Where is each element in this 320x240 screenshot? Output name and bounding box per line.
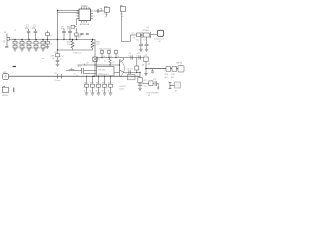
svg-text:an: an [104,17,106,19]
svg-text:an: an [121,16,123,18]
svg-text:R3: R3 [31,43,33,45]
svg-text:4*MHz: 4*MHz [143,30,150,32]
svg-text:R21: R21 [143,80,146,82]
svg-text:R5: R5 [45,43,47,45]
svg-text:18: 18 [149,37,151,39]
svg-text:un: un [42,58,44,60]
svg-text:1k: 1k [45,47,47,49]
svg-text:C8: C8 [127,69,129,71]
svg-text:R18: R18 [96,83,99,85]
svg-text:R19: R19 [102,83,105,85]
svg-text:J4: J4 [4,32,7,34]
svg-text:470: 470 [96,44,99,46]
svg-text:C5: C5 [67,27,69,29]
svg-text:1%: 1% [52,58,55,60]
svg-text:18: 18 [133,37,135,39]
svg-text:R1: R1 [17,43,19,45]
svg-text:1u: 1u [60,59,62,61]
svg-text:a1: a1 [14,29,16,31]
svg-text:R10 R11 R12: R10 R11 R12 [99,48,112,50]
svg-text:470: 470 [67,44,70,46]
svg-text:a5: a5 [74,74,76,76]
svg-text:Q1: Q1 [112,62,116,64]
svg-text:U3: U3 [86,63,88,65]
svg-text:1A: 1A [142,64,145,67]
svg-text:D1: D1 [98,59,100,61]
svg-text:1A: 1A [148,63,151,66]
svg-text:XTL: XTL [132,33,135,35]
svg-text:R20: R20 [108,83,111,85]
svg-text:J3: J3 [175,91,178,93]
svg-text:470 4k7: 470 4k7 [74,37,82,39]
svg-text:J6: J6 [159,41,161,43]
svg-text:JP2: JP2 [78,66,82,68]
svg-text:1n: 1n [136,55,138,57]
svg-text:AT12c: AT12c [81,5,88,8]
svg-text:C13: C13 [144,55,147,57]
svg-text:a2: a2 [148,95,150,97]
svg-text:1k: 1k [31,47,33,49]
svg-text:1: 1 [3,83,4,85]
svg-text:1k: 1k [90,91,92,93]
svg-text:(Q2): (Q2) [120,88,124,90]
svg-text:C7: C7 [144,40,146,42]
svg-text:1k: 1k [103,56,105,58]
svg-text:10n: 10n [25,28,30,30]
svg-text:a2: a2 [50,35,52,37]
svg-text:R4: R4 [38,43,40,45]
svg-text:4k7: 4k7 [165,77,169,79]
svg-text:2.1mm: 2.1mm [55,80,61,82]
svg-text:1k: 1k [96,91,98,93]
svg-text:4.7: 4.7 [131,69,134,71]
svg-text:R17: R17 [90,83,93,85]
svg-text:1k: 1k [38,47,40,49]
svg-text:4u: 4u [104,61,106,63]
svg-text:ATMEGA: ATMEGA [80,23,90,26]
svg-text:MODULE1: MODULE1 [98,74,109,76]
svg-text:C11: C11 [143,86,146,88]
svg-text:1k: 1k [102,91,104,93]
svg-text:=: = [13,72,15,74]
svg-text:2: 2 [3,40,5,44]
svg-text:1k: 1k [108,91,110,93]
svg-text:R14: R14 [165,74,170,76]
svg-text:1k: 1k [24,47,26,49]
svg-text:PW: PW [3,72,6,74]
svg-text:SW100: SW100 [2,95,8,97]
svg-text:1k: 1k [17,47,19,49]
svg-text:RX 433: RX 433 [99,69,105,71]
svg-text:C6: C6 [136,40,138,42]
svg-text:R15: R15 [171,74,176,76]
svg-text:TMP36: TMP36 [176,63,183,65]
svg-text:4k7: 4k7 [171,77,175,79]
svg-text:1k: 1k [117,56,119,58]
svg-text:C300 1 n2: C300 1 n2 [73,52,82,54]
svg-text:1n: 1n [128,55,130,57]
svg-text:C14: C14 [153,79,156,81]
svg-text:R16: R16 [84,83,87,85]
svg-text:+: + [152,73,154,75]
svg-text:3: 3 [94,16,95,18]
svg-text:1k: 1k [84,91,86,93]
svg-text:a3: a3 [50,43,52,45]
svg-text:10n: 10n [32,28,37,30]
svg-text:1k: 1k [110,56,112,58]
svg-text:R2: R2 [24,43,26,45]
svg-text:2: 2 [94,11,95,13]
svg-text:U4: U4 [146,27,150,29]
